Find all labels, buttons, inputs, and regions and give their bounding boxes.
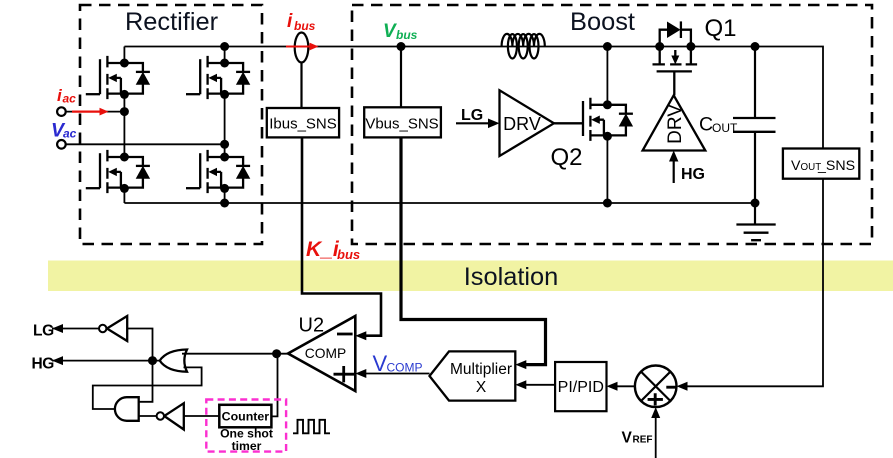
wire v_ac to right leg (65, 143, 224, 145)
wire counter to inverter G4 (184, 415, 220, 417)
svg-text:V: V (383, 21, 397, 42)
svg-text:ac: ac (63, 92, 77, 106)
label one shot timer (220, 427, 273, 454)
svg-text:V: V (622, 430, 633, 447)
svg-text:V: V (791, 158, 801, 174)
block Counter (219, 405, 271, 428)
wire i_ac input (65, 108, 124, 116)
label i_ac (57, 86, 76, 106)
svg-text:OUT: OUT (712, 121, 738, 135)
block V_OUT_SNS (783, 149, 859, 179)
label LG (drive input) (461, 107, 483, 124)
wire vbus sense net to multiplier (401, 137, 546, 369)
svg-text:Ibus_SNS: Ibus_SNS (269, 116, 337, 133)
wire PI/PID to multiplier (515, 380, 555, 389)
junction dot HG node (148, 356, 157, 365)
wire HG arrow into driver (669, 151, 678, 184)
multiplier block (430, 351, 516, 400)
svg-text:Rectifier: Rectifier (125, 8, 219, 36)
svg-text:i: i (287, 11, 293, 32)
junction dot C_OUT top (751, 42, 760, 51)
svg-text:_SNS: _SNS (817, 158, 855, 174)
boost block dashed box (352, 5, 872, 244)
wire vout sense net down to summer (677, 179, 824, 391)
and gate G3 (mirrored) (115, 397, 139, 421)
summing junction (635, 366, 677, 408)
transistor M2 (rectifier top-right) (186, 56, 250, 99)
rectifier block dashed box (80, 5, 262, 244)
label V_COMP (373, 351, 423, 376)
wire or gate bottom input feedback (93, 367, 202, 409)
svg-text:Isolation: Isolation (464, 263, 559, 291)
gate driver U3 DRV (low side) (500, 90, 554, 156)
wire v_bus to Vbus_SNS (400, 47, 402, 108)
label C_OUT (699, 114, 738, 136)
svg-text:Boost: Boost (570, 8, 635, 36)
transistor M1 (rectifier top-left) (86, 56, 150, 99)
inverter G4 (139, 403, 184, 429)
transistor Q1 (high side, horizontal) (653, 21, 698, 95)
inverter G2 (99, 316, 127, 341)
svg-text:Q2: Q2 (551, 144, 583, 171)
red arrow i_bus direction (286, 43, 319, 51)
svg-text:LG: LG (461, 107, 483, 124)
wire comparator output (182, 353, 288, 355)
junction dots Q2 (603, 100, 612, 207)
wire bottom bus (124, 202, 755, 204)
wire HG node (52, 356, 160, 365)
transistor M4 (rectifier bottom-right) (186, 150, 250, 193)
inductor L1 (502, 34, 545, 59)
wire LG arrow into driver (456, 119, 500, 129)
label K_ibus (306, 238, 360, 262)
svg-text:Vbus_SNS: Vbus_SNS (365, 116, 438, 133)
wire summer to PI/PID (607, 382, 635, 391)
wire K_ibus net (302, 137, 381, 340)
svg-text:timer: timer (232, 439, 262, 453)
label LG output (33, 322, 54, 339)
node v_bus label (383, 21, 418, 42)
comparator U2 (288, 316, 355, 391)
svg-text:V: V (373, 351, 388, 376)
svg-text:bus: bus (337, 247, 360, 262)
junction dots rectifier (120, 42, 229, 208)
wire V_REF input (651, 407, 660, 458)
block Vbus_SNS (364, 107, 441, 137)
label Q1 (705, 15, 737, 42)
or gate G1 (mirrored) (160, 350, 187, 372)
transistor Q2 (583, 98, 633, 141)
junction dot comparator output (272, 349, 281, 358)
label V_REF (622, 430, 653, 447)
gate driver U4 DRV (high side, pointing up) (643, 95, 706, 150)
svg-text:PI/PID: PI/PID (558, 379, 604, 396)
block PI/PID (555, 362, 606, 411)
svg-text:DRV: DRV (665, 104, 686, 144)
wire to counter (271, 354, 277, 417)
svg-text:HG: HG (32, 356, 55, 373)
label Boost (570, 8, 635, 36)
current sensor CT (ellipse) (295, 33, 309, 63)
label Q2 (551, 144, 583, 171)
svg-text:Counter: Counter (222, 410, 270, 424)
svg-text:LG: LG (33, 322, 54, 339)
svg-text:bus: bus (294, 19, 316, 33)
wire sensor to Ibus_SNS (300, 63, 302, 109)
wire HG node to inverter and AND input (127, 329, 152, 402)
svg-text:bus: bus (396, 28, 418, 42)
wire Q2 drain leg (606, 47, 608, 204)
one shot timer dashed box (206, 400, 286, 452)
label HG output (32, 356, 55, 373)
label U2 (299, 315, 325, 337)
capacitor C_OUT (733, 47, 776, 204)
svg-text:ac: ac (63, 127, 77, 141)
junction dot C_OUT bottom (751, 199, 760, 208)
junction dot v_bus (397, 42, 406, 51)
svg-text:COMP: COMP (387, 361, 423, 375)
svg-text:REF: REF (633, 435, 653, 446)
svg-text:K_i: K_i (306, 238, 340, 261)
svg-text:X: X (476, 379, 487, 396)
label i_bus (287, 11, 316, 33)
svg-text:U2: U2 (299, 315, 325, 337)
svg-text:C: C (699, 114, 713, 136)
wire LG output (52, 324, 99, 333)
wire left bridge leg (124, 47, 301, 204)
svg-text:DRV: DRV (503, 114, 541, 134)
input terminal i_ac (57, 107, 66, 116)
ground (736, 203, 775, 240)
junction dot inductor-Q2-Q1 node (603, 42, 612, 51)
label HG (drive input) (681, 166, 705, 183)
isolation barrier band (48, 261, 893, 292)
wire multiplier to comparator plus input (355, 369, 429, 378)
wire driver to Q2 gate (554, 122, 583, 124)
transistor M3 (rectifier bottom-left) (86, 150, 150, 193)
svg-text:HG: HG (681, 166, 705, 183)
junction dots Q1 (655, 42, 695, 51)
input terminal v_ac (57, 140, 66, 149)
block Ibus_SNS (267, 108, 339, 137)
label Rectifier (125, 8, 219, 36)
wire top bus (308, 47, 823, 149)
svg-text:Q1: Q1 (705, 15, 737, 42)
label v_ac (51, 119, 77, 141)
wire right bridge leg (224, 47, 226, 204)
svg-text:COMP: COMP (305, 346, 346, 361)
svg-text:Multiplier: Multiplier (450, 361, 512, 378)
clock waveform symbol (293, 420, 330, 434)
